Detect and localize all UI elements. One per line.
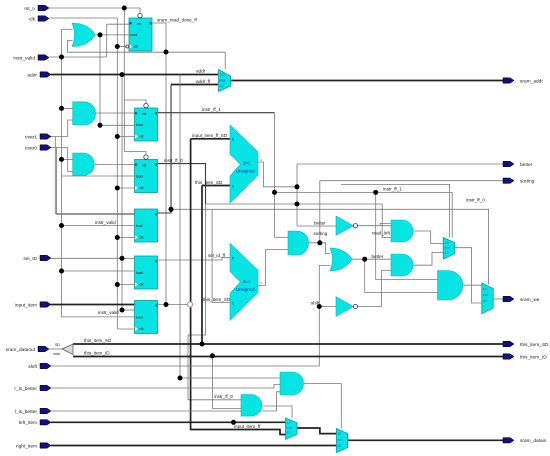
svg-text:this_item_ID: this_item_ID — [520, 354, 547, 360]
svg-text:1,0: 1,0 — [220, 73, 225, 77]
input port addr — [40, 72, 51, 77]
wire NOT2 out — [358, 271, 391, 307]
svg-text:sorting: sorting — [520, 179, 535, 185]
svg-text:sorting: sorting — [314, 231, 328, 236]
junction (124.3,8) — [122, 6, 127, 11]
junction (61.5,159.4) — [59, 157, 64, 162]
wire instr_ff_1 trunk — [274, 113, 276, 238]
comparator CMP1 0>1 Unsigned — [230, 125, 262, 203]
wire sram_read_done feedback — [67, 52, 225, 69]
svg-text:1,0: 1,0 — [287, 421, 291, 425]
output port sram_addr — [503, 78, 514, 83]
svg-text:sram_read_done_ff: sram_read_done_ff — [157, 18, 197, 23]
wire OR3 out — [352, 258, 391, 260]
wire better to NOT1 — [297, 225, 336, 227]
svg-text:0=1: 0=1 — [243, 279, 251, 284]
wire l_is_better — [51, 392, 280, 411]
wire instr_valid long trunk — [61, 29, 63, 317]
svg-text:0: 0 — [232, 256, 234, 260]
wire clk trunk — [116, 18, 118, 329]
svg-text:input_item_ff: input_item_ff — [234, 424, 261, 429]
svg-text:instr_ff_1: instr_ff_1 — [202, 107, 221, 112]
or-gate OR1 — [72, 23, 95, 47]
wire clk — [49, 17, 117, 19]
svg-text:instr_valid: instr_valid — [95, 220, 116, 225]
wire instr_ff_1 to AND-F — [275, 236, 289, 238]
svg-text:instr_ff_0: instr_ff_0 — [466, 198, 485, 203]
svg-text:=: = — [260, 158, 262, 162]
svg-text:better: better — [314, 221, 326, 226]
svg-text:mux: mux — [483, 293, 489, 297]
svg-text:Unsigned: Unsigned — [236, 287, 255, 292]
wire AND-H out — [413, 253, 444, 266]
svg-text:2,1: 2,1 — [445, 251, 449, 255]
wire sram_dataout — [49, 348, 62, 350]
svg-text:addr: addr — [27, 72, 37, 78]
wire input_item — [51, 304, 135, 306]
wire OR3 out down — [365, 259, 438, 292]
input port sel_ID — [40, 255, 51, 260]
svg-text:instr_ff_1: instr_ff_1 — [383, 187, 402, 192]
junction (117.3,46.5) — [115, 44, 120, 49]
junction (117.3,136.5) — [115, 134, 120, 139]
svg-text:instr_ff_0: instr_ff_0 — [214, 394, 233, 399]
svg-text:rst_n: rst_n — [24, 6, 35, 12]
wire this_item_SD bus — [73, 343, 503, 345]
output port sram_datain — [503, 438, 514, 443]
svg-text:shift: shift — [311, 301, 320, 306]
wire sram_datain — [348, 439, 503, 441]
junction (201,344) — [200, 342, 205, 347]
output port sorting — [503, 178, 514, 183]
junction (61.5,225.5) — [59, 223, 64, 228]
junction (213.8,356.5) — [210, 353, 215, 358]
junction (364.7,259.2) — [362, 257, 367, 262]
svg-text:this_item_SD: this_item_SD — [203, 297, 231, 302]
svg-text:left_item: left_item — [19, 420, 37, 426]
wire load to FF3 — [62, 175, 135, 177]
flip-flop FF1 sram_read_done_ff — [126, 13, 152, 51]
and-gate D — [241, 395, 262, 417]
svg-text:2,1: 2,1 — [220, 84, 225, 88]
junction (375.7,192.4) — [373, 190, 378, 195]
wire sorting riser — [319, 181, 321, 243]
wire to AND2 in1 — [62, 158, 73, 160]
svg-text:clk: clk — [29, 16, 35, 22]
input port left_item — [40, 420, 51, 425]
and-gate AND-F (sorting) — [288, 231, 309, 255]
and-gate AND3 — [280, 372, 304, 395]
wire right_item — [51, 445, 336, 447]
svg-text:1,0: 1,0 — [445, 241, 449, 245]
input port instr0 — [40, 145, 51, 150]
svg-text:better: better — [520, 162, 533, 168]
junction (319.3,306.5) — [317, 304, 322, 309]
svg-text:sram_we: sram_we — [520, 297, 540, 303]
input port sram_dataout — [38, 346, 49, 351]
wire instr0 drop to FF4 — [57, 148, 135, 215]
output port better — [503, 161, 514, 166]
wire clk to FF3 — [117, 187, 135, 189]
junction (166,304.5) — [164, 302, 169, 307]
and-gate AND-J (sram_we) — [438, 271, 463, 301]
svg-text:addr_ff: addr_ff — [196, 79, 211, 84]
flip-flop FF3 instr_ff_0 — [135, 155, 158, 193]
junction (297,204) — [295, 202, 300, 207]
input port r_is_better — [40, 385, 51, 390]
and-gate AND-G (read_left) — [391, 220, 413, 242]
wire shift — [51, 266, 330, 367]
svg-text:2,1: 2,1 — [287, 431, 291, 435]
wire comp2 in2 riser — [212, 209, 230, 302]
wire clk to FF4 — [117, 237, 135, 239]
wire FF5 branch down — [179, 75, 181, 379]
svg-text:addr: addr — [196, 69, 206, 74]
wire left_item — [51, 421, 286, 423]
wire addr bus — [51, 74, 218, 76]
input port shift — [40, 363, 51, 368]
svg-text:0>1: 0>1 — [243, 161, 251, 166]
wire instr_ff_1 branch — [275, 192, 453, 237]
wire load to FF6 — [62, 316, 135, 318]
svg-text:instr1: instr1 — [25, 134, 37, 140]
svg-text:mux: mux — [220, 79, 226, 83]
wire trunk to FF1 rst — [107, 23, 129, 25]
svg-text:1,0: 1,0 — [337, 432, 341, 436]
svg-text:Unsigned: Unsigned — [236, 169, 255, 174]
junction (122,74.6) — [120, 72, 125, 77]
junction (178,377.3) — [178, 376, 183, 381]
wire sel_ID — [51, 257, 135, 259]
wire load to FF4 — [62, 225, 135, 227]
junction (117.3,237.5) — [115, 235, 120, 240]
wire FF3 out instr_ff_0 — [157, 164, 206, 204]
wire NOT1 out — [358, 223, 391, 225]
input port input_item — [40, 302, 51, 307]
wire mux E out — [297, 428, 336, 434]
junction (61.5,271) — [59, 269, 64, 274]
and-gate AND-H (better) — [391, 254, 413, 276]
junction (274.5,192.4) — [272, 190, 277, 195]
svg-text:1: 1 — [232, 301, 234, 305]
wire gate D out — [262, 406, 292, 418]
input port instr1 — [40, 134, 51, 139]
input port instr_valid — [38, 55, 49, 60]
wire instr_valid trunk upper — [106, 24, 108, 57]
wire FF6 out — [157, 304, 187, 306]
svg-text:this_item_SD: this_item_SD — [195, 180, 223, 185]
output port this_item_ID — [503, 354, 514, 359]
wire addr trunk stub — [122, 309, 135, 311]
wire addr_ff bus — [157, 85, 171, 214]
svg-text:read_left: read_left — [372, 231, 391, 236]
mux sram_we — [482, 283, 493, 314]
svg-text:2,1: 2,1 — [337, 444, 341, 448]
wire shift to OR3 — [319, 306, 336, 308]
junction (100,125.3) — [98, 123, 103, 128]
dangling net marker (red circle) — [187, 302, 192, 307]
svg-text:sel_ID: sel_ID — [23, 256, 37, 262]
wire rst_n — [49, 8, 140, 13]
input port rst_n — [38, 5, 49, 10]
svg-text:right_item: right_item — [16, 443, 37, 449]
wire instr_valid — [49, 56, 107, 58]
wire instr_ff_0 horizontal — [206, 203, 383, 205]
svg-text:sram_addr: sram_addr — [520, 78, 543, 84]
wire AND3 in1 — [180, 377, 280, 379]
wire comp1 out — [258, 162, 297, 187]
wire addr_ff to mux — [171, 84, 218, 86]
wire better out — [297, 163, 503, 165]
wire this_item_ID riser to D — [212, 356, 241, 409]
svg-text:sel_id_ff: sel_id_ff — [208, 253, 226, 258]
wire AND1 out — [95, 112, 135, 114]
junction (166,52) — [164, 50, 169, 55]
wire sram_read_done load feed — [99, 35, 101, 125]
junction (319.8,242.8) — [317, 240, 322, 245]
junction (171,209.3) — [169, 207, 174, 212]
wire better riser — [296, 164, 298, 226]
svg-text:instr0: instr0 — [25, 145, 37, 151]
svg-text:this_item_SD: this_item_SD — [520, 342, 549, 348]
mux F — [336, 429, 347, 453]
or-gate OR3 — [330, 248, 352, 271]
mux I — [443, 238, 454, 260]
junction (233.5,422.3) — [231, 420, 236, 425]
and-gate AND2 — [73, 153, 95, 176]
svg-text:better: better — [372, 254, 384, 259]
flip-flop FF5 sel_id_ff — [135, 256, 158, 289]
mux E — [286, 418, 298, 439]
splitter sram_dataout — [53, 343, 73, 356]
junction (61.5,108.4) — [59, 106, 64, 111]
wire AND3 out — [304, 384, 341, 429]
mux addr (sram_addr mux) — [219, 70, 231, 92]
wire FF2 out instr_ff_1 — [157, 112, 275, 114]
input port clk — [38, 16, 49, 21]
svg-text:sram_dataout: sram_dataout — [6, 347, 36, 353]
output port this_item_SD — [503, 341, 514, 346]
wire AND-J out — [460, 284, 482, 286]
svg-text:instr_valid: instr_valid — [98, 310, 119, 315]
input port l_is_better — [40, 408, 51, 413]
wire addr trunk — [121, 75, 123, 310]
wire this_item_ID bus — [73, 356, 503, 358]
junction (61.1,57) — [59, 55, 64, 60]
wire to AND1 in1 — [62, 107, 73, 109]
wire input_item_ff_SD to comp1 — [191, 138, 230, 140]
wire AND-F out — [308, 243, 330, 254]
svg-text:sram_datain: sram_datain — [520, 438, 547, 444]
svg-text:instr_valid: instr_valid — [13, 55, 35, 61]
wire instr0 riser to AND2 — [68, 148, 73, 172]
comparator CMP2 0=1 Unsigned — [230, 243, 262, 320]
flip-flop FF4 addr_ff — [135, 209, 158, 242]
and-gate AND1 — [73, 102, 96, 125]
svg-text:this_item_SD: this_item_SD — [84, 338, 112, 343]
junction (117.3,284.5) — [115, 282, 120, 287]
wire rst trunk — [123, 8, 125, 152]
wire AND-G out — [413, 231, 444, 244]
not-gate NOT1 (better inverter) — [336, 216, 358, 235]
svg-text:instr_ff_0: instr_ff_0 — [164, 158, 183, 163]
svg-text:mux: mux — [287, 426, 293, 430]
wire clk to FF2 — [117, 136, 135, 138]
junction (122,310) — [120, 308, 125, 313]
wire FF1 out — [152, 23, 166, 305]
wire read_left — [382, 204, 391, 238]
svg-text:input_item: input_item — [15, 302, 37, 308]
junction (297,186.8) — [295, 184, 300, 189]
svg-text:2,1: 2,1 — [483, 299, 487, 303]
svg-text:SD: SD — [55, 343, 60, 347]
wire rst to FF3 bubble — [124, 152, 146, 156]
wire cmp select 1 — [341, 184, 450, 237]
wire rst to FF2 bubble — [124, 100, 146, 103]
wire sram_we out — [493, 298, 503, 300]
input port right_item — [40, 443, 51, 448]
svg-text:mux: mux — [445, 246, 451, 250]
wire sram_addr bus — [231, 80, 504, 82]
wire instr1 — [51, 136, 68, 138]
wire clk to FF1 — [117, 46, 129, 48]
svg-text:input_item_ff_SD: input_item_ff_SD — [192, 133, 228, 138]
wire load to FF2 — [100, 124, 135, 126]
output port sram_we — [503, 296, 514, 301]
flip-flop FF6 input_item_ff — [135, 301, 158, 334]
svg-text:msb: msb — [53, 352, 60, 356]
wire instr0 — [51, 147, 68, 149]
not-gate NOT2 (shift inverter) — [336, 297, 358, 316]
svg-text:0: 0 — [232, 138, 234, 142]
svg-text:mux: mux — [337, 438, 343, 442]
wire instr_ff_0 down to D — [188, 204, 241, 400]
svg-text:this_item_ID: this_item_ID — [84, 351, 110, 356]
wire OR1 out to FF1 load — [94, 34, 129, 36]
wire AND2 out — [95, 164, 135, 166]
wire clk to FF6 — [117, 328, 135, 330]
wire sorting out — [320, 180, 503, 182]
wire instr_ff_1 down branch — [376, 192, 438, 279]
svg-text:r_is_better: r_is_better — [14, 386, 37, 392]
wire r_is_better — [51, 385, 280, 389]
svg-text:1,0: 1,0 — [483, 287, 487, 291]
junction (117.3,188) — [115, 186, 120, 191]
wire FF5 out sel_id_ff — [157, 258, 230, 260]
svg-text:shift: shift — [28, 364, 37, 370]
svg-text:1: 1 — [232, 184, 234, 188]
flip-flop FF2 instr_ff_1 — [135, 103, 158, 141]
svg-text:l_is_better: l_is_better — [15, 409, 38, 415]
wire OR1 in1 riser — [62, 28, 73, 30]
svg-text:=: = — [260, 282, 262, 286]
wire clk to FF5 — [117, 284, 135, 286]
junction (122,258.3) — [120, 256, 125, 261]
junction (100,34.9) — [98, 32, 103, 37]
wire comp2 out — [258, 250, 288, 286]
wire instr1 drop to FF4 — [55, 137, 134, 214]
wire OR1 in2 — [67, 41, 72, 53]
wire input_item_ff riser — [191, 139, 286, 435]
wire FF4 out branch — [171, 209, 489, 284]
wire instr1 riser to AND1 — [68, 120, 73, 137]
wire load to FF5 — [62, 270, 135, 272]
wire mux I out — [455, 248, 482, 303]
wire this_item_SD riser comp1 — [202, 186, 230, 345]
